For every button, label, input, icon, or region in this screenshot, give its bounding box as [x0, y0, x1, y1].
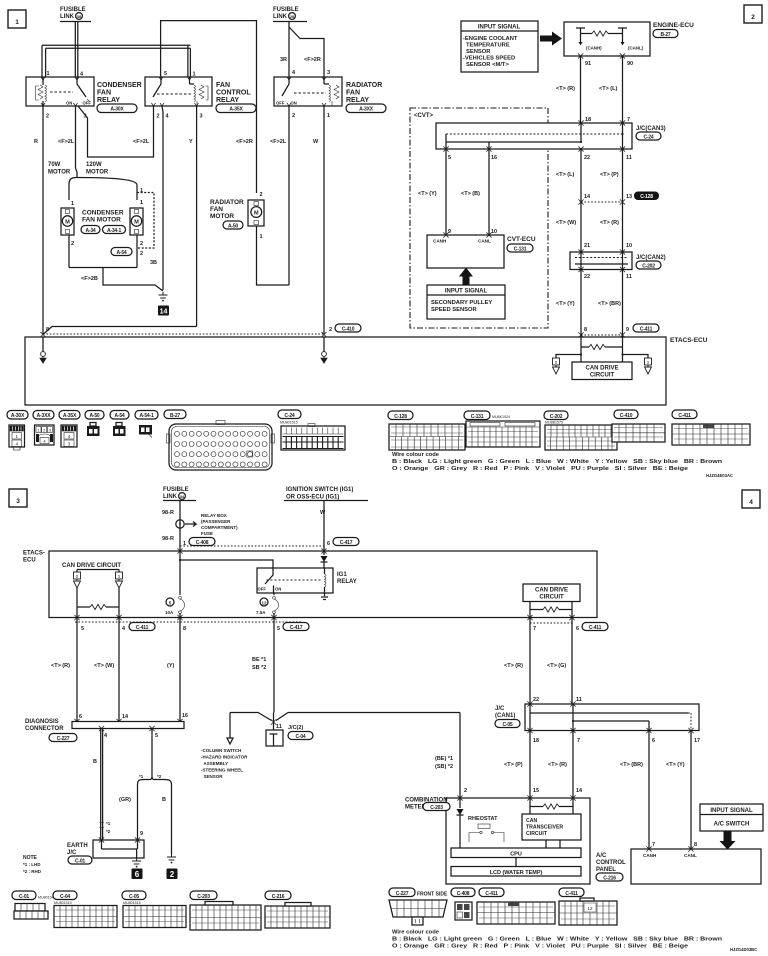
svg-text:3R: 3R [280, 57, 287, 63]
svg-text:SENSOR: SENSOR [466, 49, 491, 55]
wire: relay supply bus (double) [42, 45, 190, 48]
svg-text:5: 5 [155, 733, 158, 739]
earth J/C C-01 [67, 843, 92, 864]
J/C(CAN1) C-05 [525, 704, 699, 731]
svg-text:A-35X: A-35X [63, 413, 77, 419]
svg-text:C-131: C-131 [471, 414, 484, 420]
70W/120W motor labels + brace [48, 162, 137, 185]
svg-text:<CVT>: <CVT> [414, 113, 434, 119]
svg-text:<T> (BR): <T> (BR) [620, 762, 643, 768]
svg-text:<T> (P): <T> (P) [504, 762, 523, 768]
wire: brace to 70W motor [68, 185, 70, 200]
svg-text:C-24: C-24 [284, 413, 294, 419]
svg-text:INPUT SIGNAL: INPUT SIGNAL [710, 808, 753, 814]
svg-text:2: 2 [170, 870, 175, 879]
wire: radiator relay pin2 to motor loop [288, 106, 290, 285]
wire: relay coil to ground [321, 593, 328, 600]
svg-text:<F>2R: <F>2R [236, 139, 253, 145]
svg-text:91: 91 [585, 61, 591, 67]
connector C-227 [389, 888, 448, 925]
wire: radiator motor bottom loop [257, 226, 290, 285]
connector A-35X [59, 411, 80, 448]
svg-text:14: 14 [584, 194, 591, 200]
wire: CAN2 to ETACS right [622, 270, 624, 363]
wire: dashed alternate connector path A-54 [137, 193, 154, 249]
svg-text:2: 2 [157, 114, 160, 120]
svg-text:<T> (R): <T> (R) [51, 663, 70, 669]
fusible link 38 [60, 7, 91, 22]
svg-text:C-24: C-24 [643, 134, 653, 140]
svg-text:CAN: CAN [526, 818, 537, 824]
wire: CAN3 to CAN2 right [622, 149, 624, 252]
wire: engine ecu CANL down [622, 56, 624, 123]
svg-text:*1: *1 [106, 821, 111, 826]
arrow: to column switch etc [227, 713, 233, 745]
engine-ecu B-27 [564, 22, 650, 56]
wire: CAN2 to ETACS left [580, 270, 582, 363]
svg-text:ETACS-: ETACS- [23, 551, 45, 557]
svg-text:3: 3 [327, 70, 330, 76]
svg-text:CONTROL: CONTROL [596, 860, 626, 866]
svg-text:13: 13 [626, 194, 632, 200]
wire: condenser relay pin3 to motors brace [76, 106, 78, 177]
svg-text:-ENGINE COOLANT: -ENGINE COOLANT [463, 36, 518, 42]
svg-text:C-05: C-05 [129, 894, 139, 900]
svg-text:6: 6 [327, 541, 330, 547]
svg-text:Wire colour code: Wire colour code [392, 930, 440, 936]
svg-text:A-54: A-54 [114, 413, 124, 419]
svg-text:C-408: C-408 [457, 891, 470, 897]
svg-text:11: 11 [626, 155, 632, 161]
svg-text:C-04: C-04 [60, 894, 70, 900]
svg-text:C-411: C-411 [565, 891, 578, 897]
svg-text:<F>2L: <F>2L [58, 139, 75, 145]
svg-text:2: 2 [140, 241, 143, 247]
svg-text:<T> (R): <T> (R) [556, 86, 575, 92]
svg-text:18: 18 [585, 117, 591, 123]
IG1 relay [257, 568, 333, 593]
svg-text:MU8B1575: MU8B1575 [545, 421, 563, 425]
wire: radiator relay pin1 W wire to ETACS [323, 106, 325, 334]
svg-text:11: 11 [626, 274, 632, 280]
svg-text:28: 28 [290, 14, 295, 19]
svg-text:CAN DRIVE: CAN DRIVE [535, 588, 568, 594]
svg-text:*2: *2 [106, 829, 111, 834]
svg-text:12: 12 [587, 906, 593, 911]
svg-text:RELAY: RELAY [337, 579, 357, 585]
legend (bottom half) [392, 930, 757, 953]
svg-text:CAN DRIVE: CAN DRIVE [585, 366, 618, 372]
connector A-54 [110, 411, 129, 437]
svg-text:A-54: A-54 [116, 250, 126, 256]
svg-text:<F>2B: <F>2B [81, 276, 98, 282]
wire: CAN3 to CAN2 left [580, 149, 582, 252]
svg-text:OFF: OFF [83, 101, 92, 106]
svg-text:CANH: CANH [643, 853, 657, 858]
svg-text:8: 8 [584, 327, 587, 333]
svg-text:CVT-ECU: CVT-ECU [507, 236, 536, 243]
svg-text:B-27: B-27 [660, 32, 670, 38]
wire: bus to fan control relay pin1 [188, 45, 191, 77]
svg-text:<T> (R): <T> (R) [548, 762, 567, 768]
svg-text:B: B [93, 759, 97, 765]
svg-text:5: 5 [277, 626, 280, 632]
svg-text:*2: *2 [157, 774, 162, 779]
svg-text:7: 7 [627, 117, 630, 123]
svg-text:17: 17 [694, 738, 700, 744]
svg-text:C-410: C-410 [620, 413, 633, 419]
svg-text:MOTOR: MOTOR [210, 213, 234, 220]
svg-text:A-54-1: A-54-1 [139, 413, 154, 419]
svg-text:22: 22 [584, 155, 590, 161]
svg-text:C-411: C-411 [678, 413, 691, 419]
A/C control panel C-216 [631, 849, 761, 884]
CVT-ECU C-131 [427, 235, 504, 268]
svg-text:4: 4 [749, 499, 753, 506]
svg-text:RHEOSTAT: RHEOSTAT [468, 816, 498, 822]
svg-text:DIAGNOSIS: DIAGNOSIS [25, 719, 59, 725]
svg-text:(CAN1): (CAN1) [495, 713, 515, 719]
svg-text:9: 9 [448, 229, 451, 235]
svg-text:6: 6 [135, 870, 140, 879]
svg-text:21: 21 [584, 243, 590, 249]
svg-text:W: W [313, 139, 319, 145]
svg-text:FAN: FAN [210, 206, 223, 213]
svg-text:<T> (BR): <T> (BR) [598, 301, 621, 307]
svg-text:TEMPERATURE: TEMPERATURE [466, 43, 510, 49]
J/C(CAN2) C-202 [570, 252, 632, 270]
svg-text:ENGINE-ECU: ENGINE-ECU [653, 22, 694, 29]
svg-text:<T> (L): <T> (L) [599, 86, 618, 92]
svg-text:B-27: B-27 [170, 413, 180, 419]
svg-text:M: M [134, 220, 139, 226]
svg-text:ASSEMBLY: ASSEMBLY [204, 761, 229, 766]
svg-text:OFF: OFF [258, 587, 267, 592]
svg-text:R: R [34, 139, 38, 145]
svg-text:3: 3 [200, 114, 203, 120]
svg-text:J/C(2): J/C(2) [288, 725, 303, 731]
svg-text:A-34-1: A-34-1 [107, 228, 122, 234]
wire: link34 down to ETACS [179, 501, 181, 552]
svg-text:2: 2 [464, 788, 467, 794]
svg-text:98-R: 98-R [162, 510, 174, 516]
wire: CAN3 to CVT-ECU CANL [488, 149, 490, 235]
svg-text:OR OSS-ECU (IG1): OR OSS-ECU (IG1) [286, 495, 339, 501]
wire: ignition to ETACS [323, 501, 325, 552]
svg-text:CIRCUIT: CIRCUIT [590, 373, 615, 379]
svg-text:<T> (Y): <T> (Y) [418, 191, 437, 197]
svg-text:HJZG4E03AC: HJZG4E03AC [706, 473, 733, 478]
CAN transceiver circuit [530, 798, 573, 814]
connector C-202 [544, 411, 617, 450]
svg-text:A/C: A/C [596, 853, 607, 859]
svg-text:SENSOR: SENSOR [204, 774, 224, 779]
svg-text:14: 14 [576, 788, 583, 794]
combination meter C-203 [405, 798, 590, 885]
J/C(2) C-04 [230, 713, 460, 721]
svg-text:CONNECTOR: CONNECTOR [25, 726, 64, 732]
CAN drive circuit (top half) [572, 362, 632, 380]
ETACS-ECU box (top half) [25, 337, 666, 405]
svg-text:IG1: IG1 [337, 572, 347, 578]
connector C-411 (bottom row b) [559, 888, 617, 925]
svg-text:(PASSENGER: (PASSENGER [201, 519, 231, 524]
wire: diag pin4 earth wire (double) [101, 729, 103, 841]
svg-text:C-417: C-417 [340, 540, 353, 546]
svg-text:PANEL: PANEL [596, 867, 616, 873]
svg-text:FAN MOTOR: FAN MOTOR [82, 217, 121, 224]
svg-text:J/C: J/C [67, 850, 77, 856]
svg-text:1: 1 [47, 71, 50, 77]
svg-text:16: 16 [491, 155, 497, 161]
svg-text:ON: ON [66, 101, 72, 106]
wire: link34 wire with fuse 5 [179, 551, 181, 618]
svg-text:C-128: C-128 [640, 194, 653, 200]
wire: CAN3 to CVT-ECU CANH [445, 149, 447, 235]
fusible link 28 [273, 7, 307, 22]
section marker 3 [9, 489, 27, 507]
svg-text:18: 18 [533, 738, 539, 744]
svg-text:OFF: OFF [276, 101, 285, 106]
svg-text:C-202: C-202 [550, 414, 563, 420]
svg-text:90: 90 [627, 61, 633, 67]
svg-text:IGNITION SWITCH (IG1): IGNITION SWITCH (IG1) [286, 487, 353, 493]
svg-text:FAN: FAN [346, 90, 360, 97]
svg-text:<F>2R: <F>2R [304, 57, 321, 63]
svg-text:FAN: FAN [97, 90, 111, 97]
svg-text:COMPARTMENT): COMPARTMENT) [201, 525, 238, 530]
arrow to engine ecu [540, 32, 562, 46]
svg-text:A-50: A-50 [228, 223, 238, 229]
svg-text:C-203: C-203 [430, 805, 443, 811]
svg-text:O : Orange GR : Grey R : R: O : Orange GR : Grey R : Red P : Pink V … [392, 466, 689, 472]
svg-text:LCD (WATER TEMP): LCD (WATER TEMP) [490, 870, 543, 876]
wire: link28 branch to radiator relay pin3 [289, 27, 324, 77]
svg-text:(BE) *1: (BE) *1 [435, 756, 453, 762]
svg-text:2: 2 [46, 114, 49, 120]
svg-text:HJZG4D03BC: HJZG4D03BC [730, 947, 757, 952]
svg-text:<T> (Y): <T> (Y) [666, 762, 685, 768]
svg-text:C-417: C-417 [290, 625, 303, 631]
wires to A/C panel [649, 731, 691, 850]
svg-text:C-227: C-227 [57, 736, 70, 742]
wire: diag pin5 with split [151, 729, 153, 777]
svg-text:A-30X: A-30X [110, 107, 124, 113]
svg-text:ON: ON [275, 587, 281, 592]
svg-text:RELAY: RELAY [97, 97, 120, 104]
svg-text:<F>2L: <F>2L [270, 139, 287, 145]
svg-text:4: 4 [166, 114, 170, 120]
svg-text:7: 7 [652, 842, 655, 848]
ETACS-ECU box (bottom half) [49, 551, 597, 618]
svg-text:2: 2 [71, 241, 74, 247]
svg-text:CANH: CANH [433, 239, 447, 244]
svg-text:C-202: C-202 [642, 263, 655, 269]
svg-text:3: 3 [16, 498, 20, 505]
svg-text:CIRCUIT: CIRCUIT [539, 595, 564, 601]
wire: fan control pin4 to ground [162, 106, 163, 290]
svg-text:*2 : RHD: *2 : RHD [23, 869, 42, 874]
svg-text:Wire colour code: Wire colour code [392, 452, 440, 458]
svg-text:98-R: 98-R [162, 536, 174, 542]
svg-text:22: 22 [533, 697, 539, 703]
section marker 1 [8, 10, 26, 28]
svg-text:C-410: C-410 [342, 326, 355, 332]
svg-text:2: 2 [260, 192, 263, 198]
svg-text:(SB) *2: (SB) *2 [435, 764, 453, 770]
wire: condenser relay pin2 R wire down to ETACS [42, 106, 44, 334]
svg-text:NOTE: NOTE [23, 855, 38, 861]
svg-text:-STEERING WHEEL: -STEERING WHEEL [201, 768, 243, 773]
svg-text:<T> (B): <T> (B) [461, 191, 480, 197]
connector C-203 [190, 891, 261, 930]
wires ETACS to J/C CAN1 [530, 618, 572, 705]
svg-text:Y: Y [189, 139, 193, 145]
svg-text:INPUT SIGNAL: INPUT SIGNAL [478, 25, 521, 31]
section marker 2 [744, 5, 762, 23]
wire: 120W motor to ground bus [136, 235, 138, 268]
condenser fan relay A-30X [26, 77, 94, 106]
svg-text:4: 4 [122, 626, 126, 632]
svg-text:16: 16 [182, 713, 188, 719]
svg-text:CONDENSER: CONDENSER [82, 210, 124, 217]
svg-text:4: 4 [292, 70, 296, 76]
svg-text:LINK: LINK [273, 14, 288, 20]
CPU [451, 848, 581, 858]
connector oval A-54 [111, 248, 132, 256]
svg-text:<T> (P): <T> (P) [600, 172, 619, 178]
connector C-05 [122, 891, 186, 928]
wire: fan control pin3 Y wire [196, 106, 198, 327]
svg-text:7.5A: 7.5A [256, 610, 266, 615]
svg-text:LINK: LINK [163, 494, 178, 500]
terminal (pin8 wire) [42, 337, 44, 352]
svg-text:C-411: C-411 [589, 625, 602, 631]
connector C-408 [451, 888, 475, 920]
svg-text:SECONDARY PULLEY: SECONDARY PULLEY [431, 300, 492, 306]
svg-text:C-411: C-411 [136, 625, 149, 631]
svg-text:C-131: C-131 [514, 246, 527, 252]
wire: fan control relay pin5 overhead to radiator fan motor [161, 21, 257, 193]
svg-text:A/C SWITCH: A/C SWITCH [714, 822, 750, 828]
svg-text:5: 5 [448, 155, 451, 161]
svg-text:C-128: C-128 [394, 414, 407, 420]
svg-text:B : Black LG : Light green: B : Black LG : Light green G : Green L :… [392, 937, 723, 943]
svg-text:MU8K1924: MU8K1924 [492, 415, 510, 419]
svg-text:M: M [254, 211, 259, 217]
wires to diagnosis connector [77, 618, 180, 722]
svg-text:6: 6 [576, 626, 579, 632]
wire: relay loop condenser pin3b to fan control pin2 [78, 106, 154, 157]
svg-text:CONTROL: CONTROL [216, 90, 251, 97]
svg-text:4: 4 [104, 733, 108, 739]
svg-text:1: 1 [71, 201, 74, 207]
wire: fusible link 38 double feed to relay bus [75, 22, 78, 78]
svg-text:12: 12 [261, 601, 267, 606]
resistor (meter) [530, 806, 543, 808]
svg-text:5: 5 [164, 71, 167, 77]
connector C-411 (bottom row a) [477, 888, 555, 924]
svg-text:C-216: C-216 [603, 875, 616, 881]
svg-text:EARTH: EARTH [67, 843, 88, 849]
J/C(CAN3) C-24 [436, 123, 632, 149]
svg-text:LINK: LINK [60, 14, 75, 20]
svg-text:MOTOR: MOTOR [48, 170, 71, 176]
CAN drive circuit (bottom right) [523, 584, 580, 602]
svg-text:11: 11 [276, 724, 282, 730]
svg-text:(CANH): (CANH) [586, 46, 602, 51]
svg-text:J/C(CAN3): J/C(CAN3) [636, 126, 666, 132]
wire: BE/SB down to J/C(2) [273, 618, 275, 713]
wire: feed to relay contact [180, 560, 273, 568]
svg-text:C-05: C-05 [502, 722, 512, 728]
input signal (secondary pulley) [427, 285, 505, 319]
svg-text:SB *2: SB *2 [252, 665, 266, 671]
svg-text:FUSIBLE: FUSIBLE [163, 487, 189, 493]
svg-text:<T> (R): <T> (R) [504, 663, 523, 669]
svg-text:CPU: CPU [510, 852, 522, 858]
ETACS bottom pins [75, 621, 302, 623]
svg-text:<T> (R): <T> (R) [600, 220, 619, 226]
svg-text:W: W [320, 510, 326, 516]
svg-text:(GR): (GR) [119, 797, 131, 803]
svg-text:A-50: A-50 [89, 413, 99, 419]
svg-text:CAN DRIVE CIRCUIT: CAN DRIVE CIRCUIT [62, 563, 121, 569]
svg-text:BE *1: BE *1 [252, 657, 266, 663]
connector A-50 [85, 411, 104, 437]
svg-text:SPEED SENSOR: SPEED SENSOR [431, 307, 478, 313]
svg-text:J/C(CAN2): J/C(CAN2) [636, 255, 666, 261]
svg-text:O : Orange GR : Grey R : R: O : Orange GR : Grey R : Red P : Pink V … [392, 944, 689, 950]
svg-text:MU801515: MU801515 [54, 901, 72, 905]
svg-text:CONDENSER: CONDENSER [97, 82, 142, 89]
wire: condenser motors ground bus [69, 268, 163, 292]
svg-text:TRANSCEIVER: TRANSCEIVER [526, 825, 563, 831]
svg-text:ECU: ECU [23, 558, 36, 564]
wire: engine ecu CANH down [580, 56, 582, 123]
svg-text:11: 11 [576, 697, 582, 703]
connector C-410 [612, 410, 665, 442]
svg-text:7: 7 [179, 523, 182, 528]
svg-text:8: 8 [183, 626, 186, 632]
svg-text:M: M [65, 220, 70, 226]
terminal (pin2 wire) [323, 337, 325, 352]
input signal A/C switch [700, 804, 763, 831]
svg-text:CIRCUIT: CIRCUIT [526, 831, 548, 837]
svg-text:(Y): (Y) [167, 663, 175, 669]
arrow up to CVT-ECU [459, 268, 473, 286]
svg-text:RELAY: RELAY [216, 97, 239, 104]
svg-text:CANL: CANL [684, 853, 697, 858]
ignition switch header [284, 487, 368, 501]
svg-text:<T> (W): <T> (W) [94, 663, 114, 669]
connector C-24 [278, 410, 345, 450]
svg-text:C-01: C-01 [75, 858, 85, 864]
svg-text:1: 1 [327, 113, 330, 119]
legend (top half) [392, 452, 733, 478]
svg-text:*1 : LHD: *1 : LHD [23, 862, 41, 867]
connector C-411 (top row) [672, 410, 750, 445]
svg-text:120W: 120W [86, 162, 102, 168]
svg-text:10: 10 [626, 243, 632, 249]
connector C-131 [464, 411, 540, 447]
svg-text:MOTOR: MOTOR [86, 170, 109, 176]
svg-text:2: 2 [751, 14, 755, 21]
fan control relay A-35X [145, 77, 212, 106]
svg-text:INPUT SIGNAL: INPUT SIGNAL [445, 289, 488, 295]
CVT dashed box [410, 108, 548, 328]
svg-text:A-3XX: A-3XX [37, 413, 52, 419]
